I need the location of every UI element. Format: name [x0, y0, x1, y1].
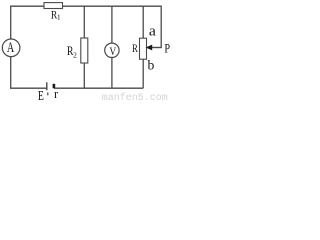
svg-text:b: b [148, 58, 155, 73]
wire: bottom left segment [10, 87, 47, 89]
wiper arrowhead [146, 45, 153, 51]
tick mark after E [47, 92, 49, 95]
wire: rheostat branch vertical [142, 6, 144, 88]
resistor R2 [67, 38, 88, 63]
battery short thick plate [53, 84, 56, 88]
wire: R2 branch vertical [83, 6, 85, 88]
svg-text:2: 2 [73, 51, 77, 60]
ammeter A [2, 39, 20, 57]
wire: right border vertical to wiper [160, 6, 162, 48]
battery long plate [46, 82, 48, 90]
svg-text:a: a [149, 24, 156, 40]
svg-text:R: R [132, 42, 138, 55]
wire: top horizontal [10, 5, 161, 7]
resistor R1 [44, 3, 63, 22]
rheostat R (slide resistor) [132, 38, 147, 59]
wire: bottom right segment [54, 87, 143, 89]
svg-text:A: A [7, 40, 15, 56]
svg-text:manfen5.com: manfen5.com [102, 92, 168, 102]
wire: voltmeter branch vertical [111, 6, 113, 88]
svg-text:r: r [54, 87, 58, 101]
wire: left vertical [10, 6, 12, 89]
battery E with internal resistance r [38, 82, 58, 103]
svg-text:1: 1 [57, 13, 61, 22]
voltmeter V [105, 43, 119, 58]
svg-text:V: V [109, 45, 116, 58]
wiper arrow P (shaft) [151, 47, 162, 49]
svg-text:E: E [38, 88, 44, 102]
svg-text:P: P [164, 41, 170, 55]
